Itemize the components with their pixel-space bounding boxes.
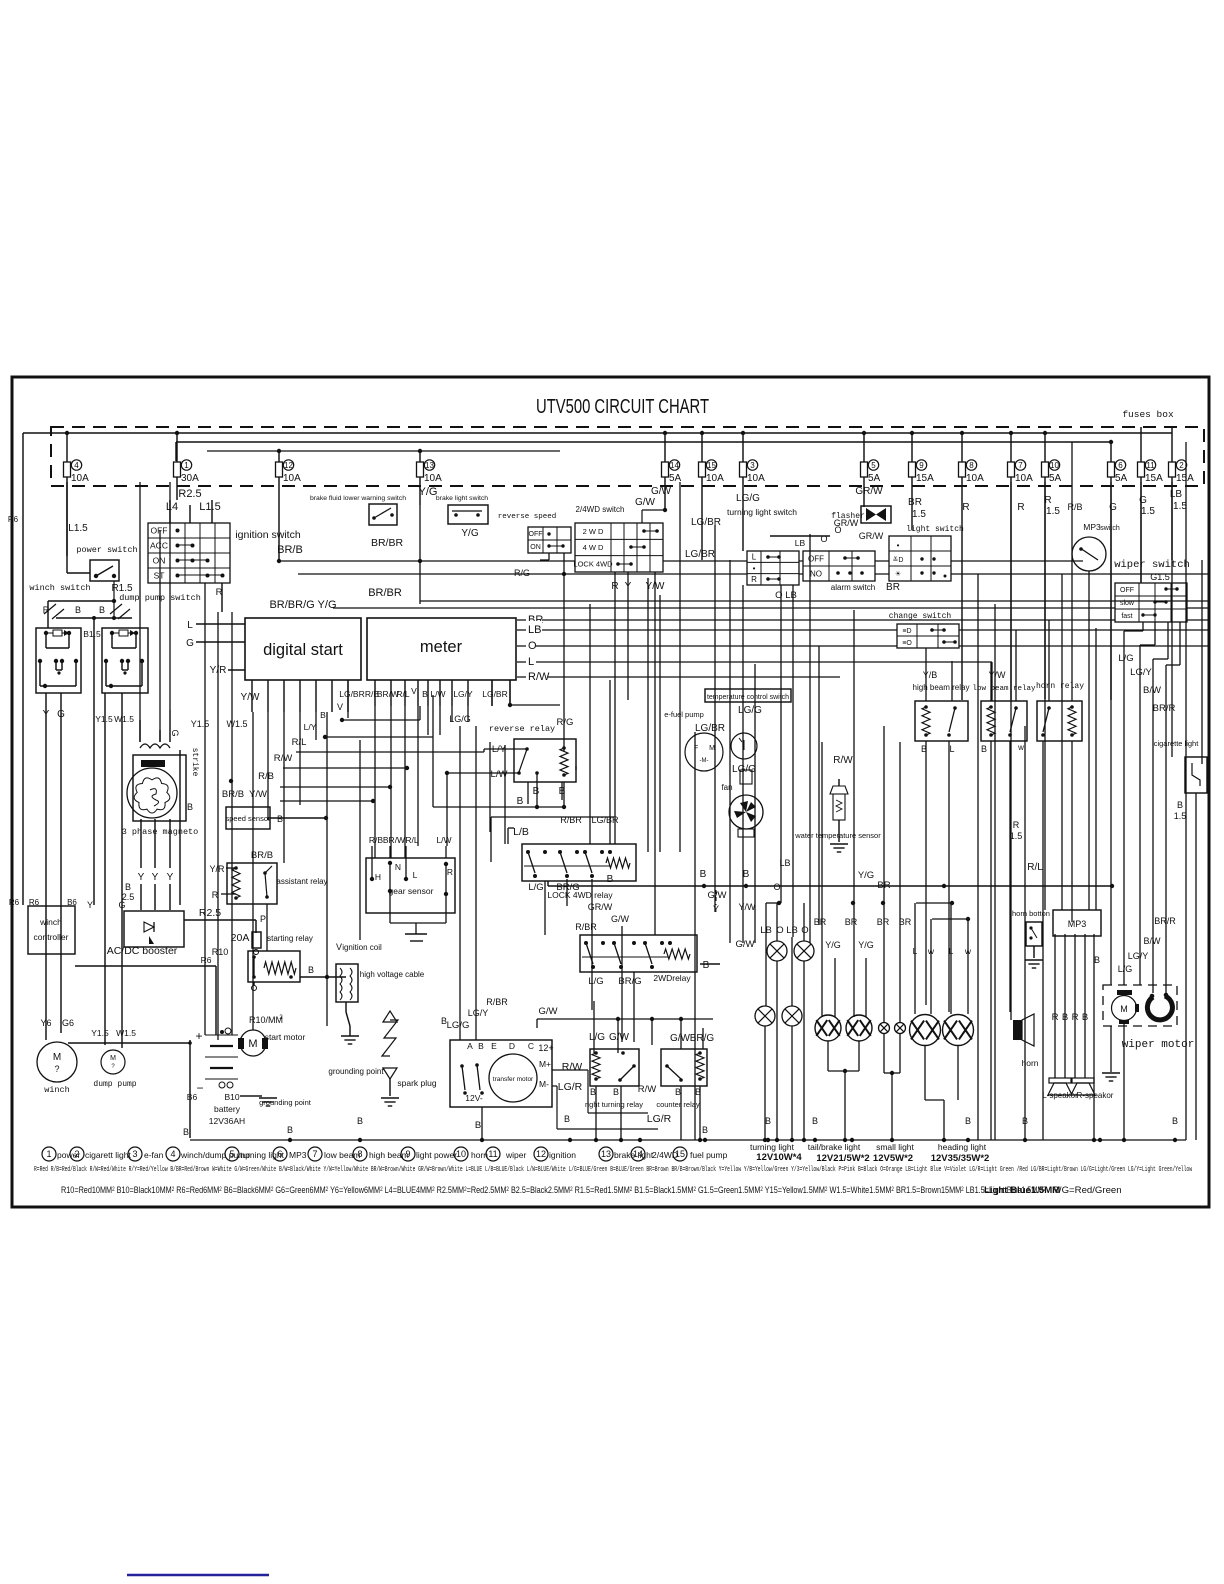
svg-text:Y/G: Y/G (461, 528, 478, 539)
wire (561, 782, 563, 800)
svg-text:B: B (613, 1087, 619, 1097)
svg-text:water temperature sensor: water temperature sensor (794, 831, 881, 840)
wire (459, 726, 461, 1040)
wire (419, 505, 421, 561)
svg-text:9: 9 (919, 461, 924, 470)
svg-text:B: B (441, 1016, 447, 1026)
svg-text:10A: 10A (424, 473, 442, 484)
wire fuse F11 output (1140, 477, 1142, 582)
svg-text:AC/DC booster: AC/DC booster (107, 945, 178, 957)
reverse speed switch (528, 527, 571, 553)
svg-text:G: G (1139, 495, 1147, 506)
svg-text:Y: Y (43, 709, 50, 720)
svg-text:LB: LB (528, 624, 541, 636)
svg-text:reverse speed: reverse speed (498, 513, 557, 521)
svg-text:1.5: 1.5 (1141, 506, 1155, 517)
svg-text:Y: Y (167, 872, 174, 883)
svg-text:LG/Y: LG/Y (1130, 667, 1152, 678)
svg-text:13: 13 (601, 1149, 611, 1159)
svg-text:R6: R6 (29, 898, 40, 907)
wire (217, 612, 219, 1040)
wire (390, 706, 392, 858)
svg-text:start motor: start motor (265, 1032, 306, 1042)
svg-text:G/W: G/W (651, 486, 672, 497)
wire digital start pin (267, 680, 269, 712)
svg-text:10A: 10A (706, 473, 724, 484)
svg-text:B: B (533, 786, 540, 797)
svg-text:12V5W*2: 12V5W*2 (873, 1153, 913, 1164)
svg-text:1: 1 (46, 1149, 51, 1159)
svg-text:controller: controller (34, 932, 69, 942)
svg-text:R/W: R/W (274, 753, 293, 764)
svg-text:14: 14 (633, 1149, 643, 1159)
svg-text:B: B (703, 960, 710, 971)
svg-text:ON: ON (153, 555, 166, 565)
wire (66, 482, 68, 573)
wire wiper BR/R step (1179, 622, 1181, 665)
svg-text:O: O (801, 925, 808, 936)
svg-text:BR: BR (899, 917, 912, 927)
svg-text:B: B (590, 1087, 596, 1097)
svg-text:fuses box: fuses box (1122, 409, 1174, 420)
svg-text:G/W: G/W (670, 1033, 691, 1044)
svg-text:heading light: heading light (938, 1142, 987, 1152)
svg-text:−: − (196, 1081, 203, 1095)
fuse F4 10A (64, 462, 71, 477)
svg-text:BR: BR (908, 497, 922, 508)
horn botton ground (1033, 946, 1035, 958)
2WD relay (580, 935, 697, 972)
svg-text:BR/G: BR/G (556, 882, 579, 893)
svg-text:GR/W: GR/W (859, 531, 884, 541)
svg-text:e-fuel pump: e-fuel pump (664, 710, 704, 719)
svg-text:R/B: R/B (369, 835, 384, 845)
wire (925, 648, 927, 701)
svg-text:1.5: 1.5 (1173, 501, 1187, 512)
wiper motor ring (1147, 996, 1172, 1020)
svg-text:B: B (422, 689, 428, 699)
wire fuse F2 output (1171, 477, 1173, 560)
svg-text:13: 13 (425, 461, 434, 470)
svg-text:L/G: L/G (528, 882, 543, 893)
fuse F7 10A (1008, 462, 1015, 477)
wire (1071, 442, 1073, 701)
svg-text:B: B (357, 1116, 363, 1126)
wire counter feeds (680, 1019, 682, 1049)
svg-text:right turning relay: right turning relay (585, 1100, 643, 1109)
meter box (367, 618, 516, 680)
svg-text:meter: meter (420, 638, 463, 656)
svg-text:Y1.5: Y1.5 (191, 719, 210, 729)
fuse F2 15A (1169, 462, 1176, 477)
svg-text:15: 15 (707, 461, 716, 470)
svg-text:N: N (395, 862, 401, 872)
svg-text:NO: NO (810, 569, 822, 578)
wire (1201, 560, 1203, 764)
MP3 switch (1072, 537, 1106, 571)
wire wiper B/W step (1167, 622, 1169, 659)
svg-text:BR/W: BR/W (383, 835, 405, 845)
svg-text:L/G: L/G (589, 1032, 605, 1043)
svg-text:L/G: L/G (588, 976, 603, 987)
wire (374, 706, 376, 858)
svg-text:2: 2 (1179, 461, 1184, 470)
svg-text:R10/MM: R10/MM (249, 1015, 283, 1025)
wire (252, 712, 254, 1030)
wire meter output LB (517, 629, 1208, 631)
svg-text:ignition switch: ignition switch (235, 529, 301, 541)
svg-text:cigarett light: cigarett light (85, 1150, 131, 1160)
dump pump motor (101, 1050, 125, 1074)
wire (504, 745, 506, 844)
tail/brake lamp 2 (846, 1015, 872, 1041)
svg-text:11: 11 (488, 1149, 497, 1159)
svg-text:L/Y: L/Y (304, 722, 317, 732)
svg-text:W1.5: W1.5 (114, 714, 134, 724)
wire (139, 482, 141, 742)
wire fuse F11 feed (1140, 427, 1142, 462)
junction (1098, 1138, 1102, 1142)
wire B transfer (481, 1107, 483, 1140)
svg-text:R/B: R/B (258, 771, 274, 782)
svg-text:BR/BR/G Y/G: BR/BR/G Y/G (269, 599, 336, 611)
wire (948, 741, 950, 1012)
svg-text:R/W: R/W (638, 1084, 657, 1095)
wire meter pin (427, 680, 429, 706)
wire (1071, 741, 1073, 922)
start motor (240, 1030, 266, 1056)
svg-text:R: R (1072, 1012, 1079, 1023)
svg-text:L: L (752, 552, 757, 561)
svg-text:M+: M+ (539, 1059, 551, 1069)
svg-text:G6: G6 (62, 1018, 74, 1028)
svg-text:BR: BR (814, 917, 827, 927)
svg-text:LB: LB (786, 925, 798, 936)
wire (451, 706, 453, 722)
wire fuse F1 feed (176, 433, 178, 462)
wire fuse F13 feed (419, 451, 421, 462)
svg-text:B: B (1062, 1012, 1068, 1023)
turning lamp upper 2 (794, 941, 814, 961)
svg-text:2 W D: 2 W D (583, 527, 604, 536)
wire meter pin (467, 680, 469, 706)
svg-text:E: E (491, 1041, 497, 1051)
page frame (12, 377, 1209, 1207)
svg-text:GR/W: GR/W (855, 486, 883, 497)
svg-text:1.5: 1.5 (1174, 811, 1187, 821)
horn speaker (1013, 1020, 1022, 1040)
junction (288, 1138, 292, 1142)
svg-text:LG/G: LG/G (447, 1020, 470, 1031)
svg-text:high voltage cable: high voltage cable (360, 970, 425, 979)
brake light switch (448, 505, 488, 524)
svg-text:O: O (773, 882, 780, 892)
svg-text:B: B (478, 1041, 484, 1051)
svg-text:brake light switch: brake light switch (436, 495, 488, 502)
wire run y801 (280, 800, 373, 802)
wire fuse F13 output (419, 477, 421, 505)
svg-text:R/W: R/W (833, 755, 853, 766)
svg-text:B: B (743, 869, 750, 880)
dump pump switch (102, 628, 148, 693)
svg-text:B: B (1094, 955, 1100, 965)
svg-text:R/L: R/L (1027, 862, 1043, 873)
fuse F14 5A (662, 462, 669, 477)
gear sensor ground (389, 910, 391, 923)
wire meter output R/W (517, 676, 840, 678)
svg-text:ignition: ignition (549, 1150, 576, 1160)
svg-text:LG/BR: LG/BR (482, 689, 508, 699)
svg-text:L/G: L/G (1118, 653, 1133, 664)
svg-text:Y/W: Y/W (739, 902, 757, 912)
svg-text:Y: Y (138, 872, 145, 883)
svg-text:Light Blue1.5MM: Light Blue1.5MM (984, 1185, 1060, 1196)
junction (638, 1138, 642, 1142)
junction (703, 1138, 707, 1142)
wire (951, 661, 953, 701)
svg-text:M: M (110, 1055, 116, 1062)
wire fuse F6 feed (1110, 442, 1112, 462)
starting relay (248, 951, 300, 982)
wire (925, 741, 927, 1005)
wire (647, 578, 649, 852)
wire fuse F8 feed (961, 433, 963, 462)
svg-text:B: B (187, 802, 193, 812)
svg-text:8: 8 (357, 1149, 362, 1159)
svg-text:B: B (308, 965, 314, 975)
fuse 20A (252, 932, 261, 948)
svg-text:low beam relay: low beam relay (972, 685, 1036, 693)
turning light switch (747, 551, 799, 585)
svg-text:starting relay: starting relay (267, 934, 313, 943)
svg-text:10A: 10A (71, 473, 89, 484)
wire (1140, 482, 1142, 583)
svg-text:BR/B: BR/B (277, 544, 303, 556)
svg-text:A: A (467, 1041, 473, 1051)
wire mesh horizontal (420, 600, 1208, 602)
svg-text:-M-: -M- (700, 758, 709, 764)
wire (315, 712, 317, 740)
wire (1110, 482, 1112, 985)
reverse relay (514, 739, 576, 782)
svg-text:10: 10 (1050, 461, 1059, 470)
junction (966, 1138, 970, 1142)
MP3 box (1053, 910, 1101, 936)
wire fuse F5 output (863, 477, 865, 507)
svg-text:G: G (57, 709, 65, 720)
svg-text:R/G: R/G (514, 568, 530, 578)
svg-text:15A: 15A (1145, 473, 1163, 484)
svg-text:B: B (277, 814, 283, 824)
wire wiper L/G step (1142, 622, 1144, 631)
svg-text:L1.5: L1.5 (68, 523, 88, 534)
svg-text:L4: L4 (166, 501, 178, 513)
junction (568, 1138, 572, 1142)
svg-text:G/W: G/W (611, 914, 630, 924)
svg-text:B/W: B/W (1144, 936, 1162, 946)
svg-text:light power: light power (416, 1150, 457, 1160)
svg-text:R/G: R/G (557, 717, 574, 728)
wire (659, 595, 661, 852)
svg-text:V: V (337, 702, 343, 712)
ignition switch (148, 523, 230, 583)
low beam relay (981, 701, 1027, 741)
svg-text:brake fluid lower warning swit: brake fluid lower warning switch (310, 495, 406, 502)
battery (205, 1034, 238, 1036)
svg-text:R/W: R/W (528, 671, 550, 683)
svg-text:B: B (700, 869, 707, 880)
svg-text:BR: BR (877, 917, 890, 927)
svg-text:3 phase magneto: 3 phase magneto (122, 827, 199, 837)
svg-text:1: 1 (184, 461, 189, 470)
wire (589, 604, 591, 844)
wire digital start pin (347, 680, 349, 712)
wire (729, 560, 731, 943)
svg-text:R/L: R/L (405, 835, 419, 845)
svg-text:?: ? (54, 1064, 59, 1074)
svg-text:change switch: change switch (889, 612, 952, 621)
grounding point 1 (341, 1035, 359, 1037)
wire heading feeds (914, 903, 916, 1014)
wire R/W run (283, 767, 407, 769)
svg-text:wiper motor: wiper motor (1122, 1039, 1195, 1051)
svg-text:B: B (1082, 1012, 1088, 1023)
svg-text:R-speakor: R-speakor (1077, 1091, 1114, 1100)
wire (283, 712, 285, 863)
svg-text:B10: B10 (224, 1092, 239, 1102)
svg-text:G/W: G/W (609, 1032, 630, 1043)
wire fuse F5 feed (863, 433, 865, 462)
svg-text:12V36AH: 12V36AH (209, 1116, 245, 1126)
svg-text:tail/brake light: tail/brake light (808, 1142, 861, 1152)
wire (1048, 620, 1050, 701)
wire (189, 1040, 191, 1138)
svg-text:L/B: L/B (513, 826, 529, 838)
svg-text:R/B: R/B (1067, 502, 1082, 512)
wire digital start pin (315, 680, 317, 712)
svg-text:5A: 5A (868, 473, 881, 484)
wire (175, 442, 177, 461)
bottom bus (190, 1139, 1186, 1141)
svg-text:2/4WD switch: 2/4WD switch (576, 505, 625, 514)
fuse F11 15A (1138, 462, 1145, 477)
wire (792, 585, 794, 937)
wire (591, 879, 593, 1010)
wire meter output BR (517, 619, 1208, 621)
wire (299, 712, 301, 805)
svg-text:B: B (702, 1125, 708, 1135)
svg-text:M: M (709, 745, 715, 752)
wiper motor M (1112, 996, 1137, 1021)
svg-text:w: w (1017, 743, 1024, 752)
wire (169, 500, 171, 523)
svg-text:12V35/35W*2: 12V35/35W*2 (931, 1153, 990, 1164)
svg-text:R=Red R/B=Red/Black R/W=Red/Wh: R=Red R/B=Red/Black R/W=Red/White R/Y=Re… (34, 1166, 1192, 1174)
svg-text:ST: ST (154, 570, 165, 580)
svg-text:LG/BR: LG/BR (339, 689, 365, 699)
fuse feed bus 3 (207, 450, 560, 452)
svg-text:V: V (336, 942, 342, 952)
horn relay (1037, 701, 1082, 741)
fuse F6 5A (1108, 462, 1115, 477)
wire (621, 926, 623, 1042)
wire (1195, 793, 1197, 1140)
wire turning feeds (765, 937, 767, 1006)
wire (977, 574, 979, 1140)
svg-text:1.5: 1.5 (1046, 506, 1060, 517)
svg-text:Y/G: Y/G (858, 940, 874, 950)
fuse F1 30A (174, 462, 181, 477)
svg-text:R/BR: R/BR (575, 922, 597, 932)
wire (1044, 482, 1046, 910)
svg-text:B6: B6 (187, 1092, 198, 1102)
svg-text:G/W: G/W (708, 890, 727, 901)
svg-text:D: D (509, 1041, 515, 1051)
svg-text:6: 6 (1118, 461, 1123, 470)
temperature control switch box (705, 689, 791, 702)
ignition coil (336, 964, 358, 1002)
small lamp 2 (895, 1023, 906, 1034)
svg-text:wiper: wiper (505, 1150, 526, 1160)
fuse F8 10A (959, 462, 966, 477)
svg-text:B: B (99, 605, 105, 615)
wire fuse F4 output (66, 477, 68, 556)
e-fuel pump (685, 733, 723, 771)
wire digital start pin (251, 680, 253, 712)
wire (527, 782, 529, 804)
svg-text:5: 5 (871, 461, 876, 470)
wire (68, 1042, 190, 1044)
wire (509, 680, 511, 706)
svg-text:high beam relay: high beam relay (913, 683, 970, 692)
flasher (861, 506, 891, 523)
wire digital start pin (283, 680, 285, 712)
wire meter pin (509, 680, 511, 706)
svg-text:winch: winch (39, 917, 62, 927)
svg-text:dump pump: dump pump (93, 1080, 136, 1089)
small lamp 1 (879, 1023, 890, 1034)
wire turning drops (764, 1026, 766, 1140)
svg-text:R: R (447, 867, 453, 877)
wire (104, 693, 106, 1045)
heading lamp 2 (943, 1015, 974, 1046)
wire (990, 662, 992, 701)
svg-text:4: 4 (170, 1149, 175, 1159)
wire (1185, 442, 1187, 1140)
svg-text:M: M (53, 1052, 61, 1063)
wire BR/BR/G bus (333, 607, 1208, 609)
speed sensor box (226, 807, 270, 829)
svg-text:ON: ON (530, 544, 541, 551)
svg-text:LB: LB (795, 538, 806, 548)
wire meter pin (451, 680, 453, 706)
spark plug (382, 1020, 398, 1056)
svg-text:7: 7 (312, 1149, 317, 1159)
svg-text:LG/Y: LG/Y (453, 689, 473, 699)
svg-text:11: 11 (1146, 461, 1155, 470)
wire (491, 680, 493, 706)
wire meter pin (404, 680, 406, 706)
fuse F15 10A (699, 462, 706, 477)
svg-text:L: L (528, 656, 534, 668)
svg-text:Y/B: Y/B (923, 670, 938, 680)
wire (1042, 741, 1044, 1140)
wire meter output L (517, 661, 992, 663)
wire (67, 572, 90, 574)
svg-text:grounding point: grounding point (328, 1067, 384, 1076)
wire (45, 693, 47, 1040)
svg-text:9: 9 (405, 1149, 410, 1159)
